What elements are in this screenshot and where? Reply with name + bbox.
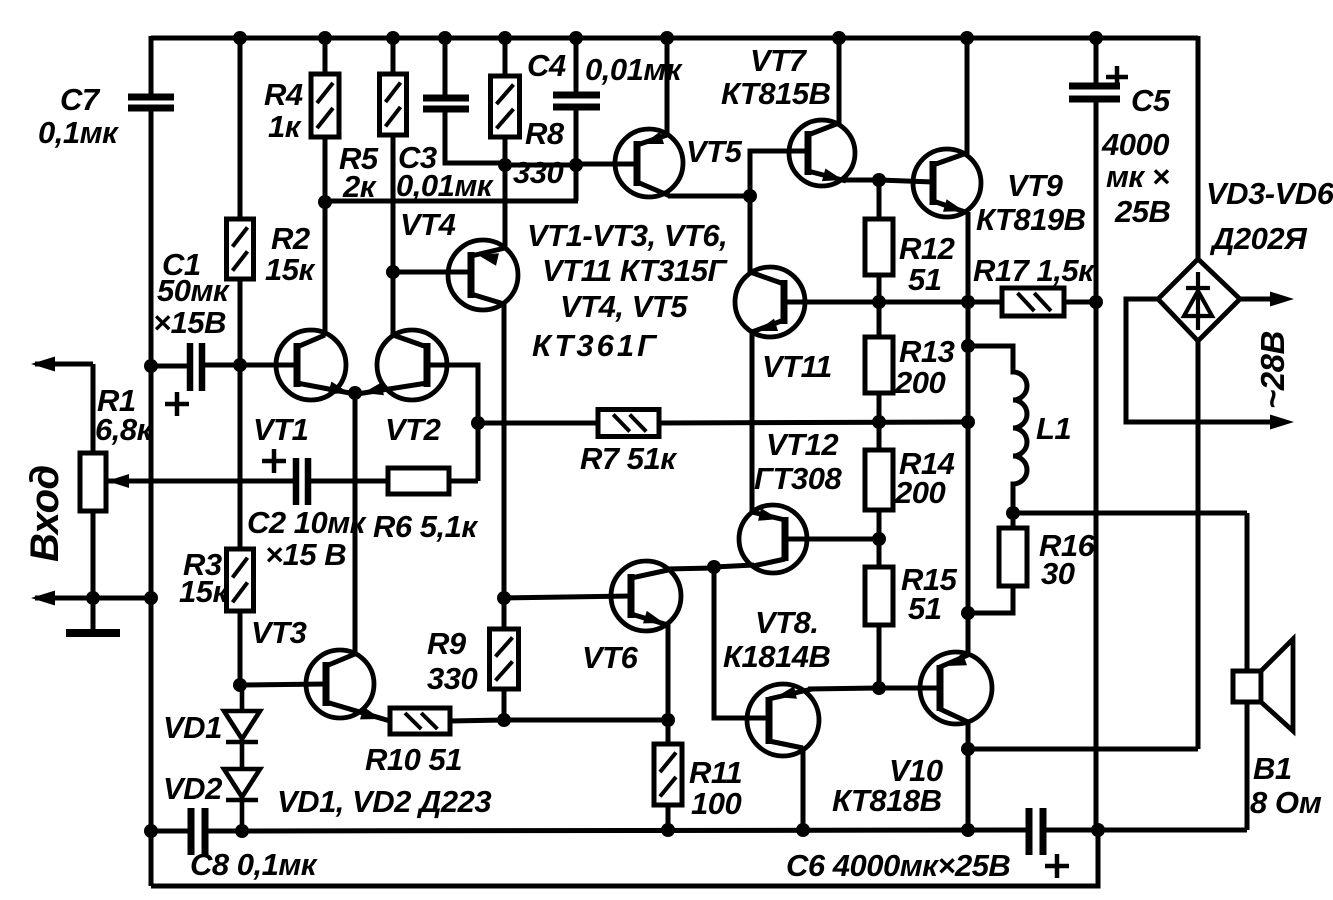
wire C3 bottom elbow	[445, 109, 505, 163]
wire R11 bottom	[666, 805, 671, 830]
svg-text:4000: 4000	[1101, 127, 1169, 162]
label VT8	[723, 605, 831, 674]
node R8 bottom junction	[498, 158, 512, 172]
label R8	[513, 116, 565, 190]
label R7	[580, 441, 677, 476]
label R1	[95, 383, 154, 447]
wire VT7 emitter	[808, 169, 879, 182]
speaker B1	[1233, 639, 1293, 731]
transistor VT7	[789, 120, 855, 186]
label VT9	[976, 168, 1086, 237]
transistor VT6	[611, 561, 681, 631]
wire R4 top	[323, 38, 328, 74]
wire bridge right arrow	[1240, 292, 1294, 307]
wiper arrow R1	[107, 474, 296, 488]
capacitor C7	[128, 97, 174, 108]
label VD1 VD2 type	[277, 784, 491, 819]
node VT11 base junction	[872, 295, 886, 309]
svg-text:C6 4000мк×25В: C6 4000мк×25В	[786, 848, 1010, 883]
node VT12 collector junction	[707, 560, 721, 574]
node V10 collector-output junction	[961, 742, 975, 756]
svg-text:К1814В: К1814В	[723, 639, 831, 674]
plus C1	[165, 392, 189, 416]
resistor R14	[865, 450, 893, 510]
wire bridge left elbow	[1126, 299, 1294, 430]
transistor VT11	[735, 267, 805, 337]
wire VT8 emitter	[769, 686, 879, 699]
wire VT12 emitter	[752, 508, 785, 521]
svg-text:VT6: VT6	[582, 640, 639, 675]
wire speaker bottom	[1245, 702, 1250, 830]
wire VT7 base	[750, 151, 808, 196]
wire VT7 collector	[808, 38, 839, 135]
label R16	[1039, 528, 1096, 591]
wire R14 top	[877, 422, 882, 450]
svg-text:Д202Я: Д202Я	[1209, 221, 1308, 256]
svg-text:C7: C7	[60, 82, 101, 117]
wire R2 bottom to R3	[238, 279, 243, 549]
wire VT5 base	[576, 162, 637, 167]
bridge rectifier VD3-VD6	[1158, 259, 1240, 341]
node VT4 base junction	[386, 265, 400, 279]
svg-text:200: 200	[894, 475, 945, 510]
label VT3	[251, 615, 307, 650]
svg-text:R4: R4	[264, 77, 303, 112]
wire R10 right	[450, 720, 504, 721]
node top rail VT5	[660, 31, 674, 45]
wire R7 left	[478, 421, 598, 426]
wire R13 bottom	[877, 393, 882, 422]
label VD2	[163, 771, 222, 806]
svg-text:51: 51	[908, 591, 941, 626]
wire VT2 emitter	[357, 383, 427, 396]
label C4	[527, 48, 683, 87]
svg-text:VD2: VD2	[163, 771, 222, 806]
label R11	[689, 755, 742, 821]
svg-text:51: 51	[908, 262, 941, 297]
label transistors legend	[527, 218, 729, 363]
capacitor C3	[423, 98, 469, 109]
label C1	[153, 247, 230, 340]
svg-text:×15В: ×15В	[153, 305, 226, 340]
wire V10 emitter top	[940, 653, 968, 667]
label R12	[899, 231, 955, 297]
wire VT12 collector down	[714, 567, 769, 718]
plus C2	[262, 449, 286, 473]
wire C5 bottom	[1094, 99, 1099, 830]
wire C4 bottom	[574, 107, 579, 165]
wire R12 bottom	[877, 275, 882, 302]
wire C5 top	[1094, 38, 1099, 86]
svg-text:VD1: VD1	[163, 710, 222, 745]
transistor VT1	[276, 330, 346, 400]
label VT6	[582, 640, 639, 675]
wire VT6 collector	[631, 568, 714, 578]
wire VT1 collector	[297, 202, 325, 347]
wire VT2 collector	[393, 335, 427, 347]
inductor L1	[968, 346, 1027, 513]
label C6	[786, 848, 1010, 883]
label VD3-VD6	[1206, 176, 1333, 256]
wire R9 top	[502, 598, 507, 629]
wire VT12 base	[785, 537, 879, 542]
plus C6	[1045, 854, 1069, 878]
label R14	[894, 446, 955, 510]
svg-text:0,01мк: 0,01мк	[396, 168, 494, 203]
transistor VT4	[448, 240, 518, 310]
node C8 left junction	[144, 824, 158, 838]
node R7 line right junction	[961, 415, 975, 429]
label R10	[365, 742, 462, 777]
wire VT3 collector	[326, 654, 355, 666]
wire R17 left	[968, 300, 1002, 305]
node top rail C3	[438, 31, 452, 45]
label L1	[1036, 411, 1071, 446]
wire VT4 collector	[471, 294, 504, 598]
node VT6 emitter junction	[661, 713, 675, 727]
transistor VT9	[913, 149, 981, 217]
resistor R17	[1002, 288, 1064, 316]
svg-text:25В: 25В	[1114, 194, 1170, 229]
node R16 return junction	[961, 606, 975, 620]
transistor VT5	[615, 129, 683, 197]
node top rail C4	[569, 31, 583, 45]
svg-text:15к: 15к	[265, 252, 315, 287]
node C6 right junction	[1091, 823, 1105, 837]
wire R10 node to VT6 emitter	[504, 718, 668, 723]
wire top supply rail	[151, 36, 1198, 41]
svg-text:8 Ом: 8 Ом	[1250, 785, 1322, 820]
capacitor C8	[191, 808, 205, 855]
node ground-line junction	[144, 591, 158, 605]
wire ground line y830 right	[1043, 828, 1247, 833]
node VT2 base-R7 junction	[471, 416, 485, 430]
node L1 bottom junction	[1006, 506, 1020, 520]
svg-text:×15 В: ×15 В	[265, 537, 346, 572]
wire R6 right elbow	[449, 479, 478, 484]
svg-text:R13: R13	[899, 334, 955, 369]
svg-text:R11: R11	[689, 755, 742, 790]
transistor VT2	[377, 330, 447, 400]
ground	[66, 598, 120, 633]
label VT12	[754, 427, 842, 496]
label C5	[1101, 83, 1171, 229]
svg-text:КТ361Г: КТ361Г	[532, 328, 659, 363]
label VT5	[686, 134, 743, 169]
node R9-R10 junction	[497, 713, 511, 727]
label VT7	[721, 43, 831, 111]
wire pot bottom	[91, 511, 96, 598]
resistor R4	[311, 74, 339, 137]
wire output down to speaker	[1245, 513, 1250, 671]
wire VT5 emitter	[637, 38, 667, 145]
node R2 bottom junction	[233, 358, 247, 372]
svg-text:ГТ308: ГТ308	[754, 461, 842, 496]
wire C3 top	[443, 38, 448, 98]
wire VT11 base line	[784, 300, 968, 305]
wire R8 bottom	[503, 137, 508, 165]
svg-text:VD1, VD2 Д223: VD1, VD2 Д223	[277, 784, 491, 819]
label VT4	[400, 207, 456, 242]
wire R17 right	[1064, 300, 1096, 305]
wire R4 bottom	[323, 137, 328, 202]
label R2	[265, 221, 315, 287]
label R6	[373, 509, 478, 544]
svg-text:VT7: VT7	[750, 43, 808, 78]
label C3	[396, 140, 494, 203]
svg-text:R17 1,5к: R17 1,5к	[973, 253, 1095, 288]
svg-text:~28В: ~28В	[1254, 331, 1291, 409]
transistor VT8	[747, 684, 819, 756]
capacitor C6	[1029, 808, 1043, 855]
node R13-R14 junction	[872, 415, 886, 429]
node R17 left junction	[961, 295, 975, 309]
node C4 bottom junction	[569, 158, 583, 172]
wire bridge bottom vertical	[1196, 341, 1201, 749]
svg-text:B1: B1	[1253, 751, 1292, 786]
label C8	[190, 847, 318, 882]
node VT3 base junction	[233, 678, 247, 692]
node VD2 bottom junction	[235, 824, 249, 838]
label V10	[832, 753, 943, 818]
node V10 base junction	[872, 681, 886, 695]
bridge diode symbol	[1184, 272, 1212, 330]
svg-text:VT4: VT4	[400, 207, 456, 242]
wire VT3 emitter	[326, 702, 390, 721]
node V10 bottom junction	[961, 823, 975, 837]
wire R5 top	[391, 38, 396, 74]
node VT5 collector junction	[743, 189, 757, 203]
label Вход	[23, 465, 67, 562]
wire VT12 collector	[714, 559, 785, 567]
wire R9 bottom	[502, 689, 507, 720]
wire VT6 emitter	[631, 611, 668, 744]
wire R3 bottom	[238, 611, 243, 685]
svg-text:50мк: 50мк	[157, 273, 230, 308]
wire VT11 emitter	[752, 319, 784, 513]
wire bias line y200	[325, 199, 578, 204]
svg-text:6,8к: 6,8к	[95, 412, 154, 447]
wire C4 top	[574, 38, 579, 95]
label VT11	[762, 349, 832, 384]
label VD1	[163, 710, 222, 745]
svg-text:R9: R9	[427, 626, 467, 661]
node VT1 collector junction	[318, 195, 332, 209]
wire node link R8-C4	[505, 163, 576, 168]
svg-text:VT11: VT11	[762, 349, 832, 384]
resistor R2	[227, 219, 254, 279]
label C2	[247, 505, 367, 572]
wire R12 top	[877, 180, 882, 219]
svg-text:30: 30	[1041, 556, 1075, 591]
label R9	[427, 626, 477, 696]
node VT6 base junction	[497, 591, 511, 605]
potentiometer R1	[80, 453, 106, 511]
wire input top with arrow	[31, 357, 93, 372]
wire V10 collector bottom	[940, 709, 968, 830]
node VT7 emitter junction	[872, 173, 886, 187]
svg-text:C2 10мк: C2 10мк	[247, 505, 367, 540]
wire left vertical below C7	[149, 108, 154, 886]
wire pot top	[91, 364, 96, 453]
wire VT9 collector	[933, 38, 967, 165]
svg-text:330: 330	[427, 661, 477, 696]
wire R15 top	[877, 539, 882, 567]
svg-text:VT2: VT2	[385, 412, 441, 447]
svg-text:VT5: VT5	[686, 134, 743, 169]
label R3	[179, 547, 229, 609]
node VT8 collector bottom junction	[796, 823, 810, 837]
node VT9 emitter junction	[961, 295, 975, 309]
wire R15 bottom	[877, 625, 882, 688]
label R5	[339, 141, 379, 204]
svg-text:15к: 15к	[179, 574, 229, 609]
svg-text:КТ818В: КТ818В	[832, 783, 942, 818]
wire top-right corner down to bridge	[1196, 36, 1201, 259]
wire bottom outer rail	[151, 830, 1098, 886]
node VT12 base junction	[872, 532, 886, 546]
wire R16 top	[1011, 513, 1016, 528]
svg-text:R7 51к: R7 51к	[580, 441, 677, 476]
resistor R5	[380, 74, 407, 135]
svg-text:R6 5,1к: R6 5,1к	[373, 509, 478, 544]
wire output line y513	[1013, 511, 1247, 516]
wire R8 top	[503, 38, 508, 76]
resistor R13	[865, 337, 893, 393]
svg-text:VT3: VT3	[251, 615, 307, 650]
wire VT2 base	[427, 365, 478, 481]
svg-text:VT8.: VT8.	[755, 605, 818, 640]
svg-text:C5: C5	[1131, 83, 1171, 118]
wire VT1 emitter	[297, 382, 355, 395]
resistor R7	[598, 410, 659, 437]
node L1 top junction	[961, 339, 975, 353]
svg-text:VD3-VD6: VD3-VD6	[1206, 176, 1333, 211]
wire R5 bottom	[391, 135, 396, 336]
wire VT4 base	[393, 270, 471, 275]
wire VT5 collector	[637, 182, 750, 196]
label C7	[38, 82, 119, 150]
resistor R10	[390, 708, 450, 734]
svg-text:L1: L1	[1036, 411, 1071, 446]
node R17 right junction	[1089, 295, 1103, 309]
label R4	[264, 77, 303, 144]
svg-text:C8 0,1мк: C8 0,1мк	[190, 847, 318, 882]
resistor R16	[999, 528, 1027, 586]
svg-text:1к: 1к	[268, 109, 302, 144]
wire ground line y830 left	[151, 829, 191, 834]
wire ground line y830 middle	[205, 830, 1029, 831]
wire VT8 collector	[769, 741, 803, 830]
wire R14 bottom	[877, 510, 882, 539]
svg-text:VT1-VT3, VT6,: VT1-VT3, VT6,	[527, 218, 727, 253]
transistor VT3	[306, 650, 374, 718]
wire VT4 emitter	[471, 165, 505, 266]
label R13	[894, 334, 955, 400]
resistor R15	[865, 567, 893, 625]
transistor V10	[920, 652, 992, 724]
node top rail R2	[233, 31, 247, 45]
wire VT3 base	[240, 684, 326, 685]
svg-text:330: 330	[513, 155, 563, 190]
label B1	[1250, 751, 1322, 820]
svg-text:Вход: Вход	[23, 465, 67, 562]
wire VT9 emitter	[933, 199, 968, 654]
svg-text:VT11 КТ315Г: VT11 КТ315Г	[542, 253, 729, 288]
wire R2 top	[238, 38, 243, 219]
wire R16 bottom elbow	[968, 586, 1013, 613]
wire VT9 base	[879, 180, 933, 182]
node top rail C5	[1089, 31, 1103, 45]
svg-text:мк ×: мк ×	[1106, 159, 1170, 194]
svg-text:C4: C4	[527, 48, 566, 83]
svg-text:0,1мк: 0,1мк	[38, 115, 119, 150]
svg-text:VT4, VT5: VT4, VT5	[560, 289, 688, 324]
svg-text:200: 200	[894, 365, 945, 400]
node input bottom junction	[86, 591, 100, 605]
wire C4 node down to bias line	[574, 165, 579, 201]
capacitor C4	[553, 95, 600, 107]
resistor R8	[491, 76, 520, 137]
capacitor C2	[296, 458, 308, 505]
wire left vertical (input ground line) top	[149, 36, 154, 97]
node top rail R5	[386, 31, 400, 45]
svg-text:R12: R12	[899, 231, 955, 266]
node top rail R4	[318, 31, 332, 45]
svg-text:VT1: VT1	[253, 412, 308, 447]
svg-text:R8: R8	[525, 116, 565, 151]
svg-text:100: 100	[691, 786, 741, 821]
capacitor C1	[190, 343, 202, 391]
wire R7 right	[659, 422, 968, 423]
svg-text:КТ815В: КТ815В	[721, 76, 831, 111]
wire output y749	[968, 747, 1198, 752]
diode VD1	[224, 685, 260, 769]
capacitor C5	[1069, 86, 1120, 99]
svg-text:R2: R2	[271, 221, 310, 256]
resistor R11	[654, 744, 682, 805]
node top rail R8	[498, 31, 512, 45]
label VT2	[385, 412, 441, 447]
plus C5	[1106, 66, 1128, 88]
svg-text:VT12: VT12	[766, 427, 838, 462]
resistor R9	[490, 629, 519, 689]
wire C2 to R6	[308, 479, 388, 484]
label VT1	[253, 412, 308, 447]
node emitter junction VT1-VT2	[348, 386, 362, 400]
node top rail VT7	[832, 31, 846, 45]
wire C1 to VT1 base	[151, 365, 297, 366]
wire V10 base	[879, 686, 940, 691]
wire R13 top	[877, 302, 882, 337]
svg-text:R10 51: R10 51	[365, 742, 462, 777]
resistor R3	[227, 549, 254, 611]
diode VD2	[224, 769, 260, 831]
wire input bottom with arrow	[31, 591, 151, 606]
node C1 left junction	[144, 359, 158, 373]
resistor R12	[865, 219, 893, 275]
transistor VT12	[739, 505, 807, 573]
label ~28В	[1254, 331, 1291, 409]
svg-text:VT9: VT9	[1007, 168, 1064, 203]
node top rail VT9	[960, 31, 974, 45]
label R15	[901, 562, 958, 626]
resistor R6	[388, 468, 449, 494]
wire VT11 collector	[750, 195, 784, 284]
node R11 bottom junction	[661, 823, 675, 837]
wire VT4 collector to VT6 base	[504, 596, 631, 598]
svg-text:КТ819В: КТ819В	[976, 202, 1086, 237]
